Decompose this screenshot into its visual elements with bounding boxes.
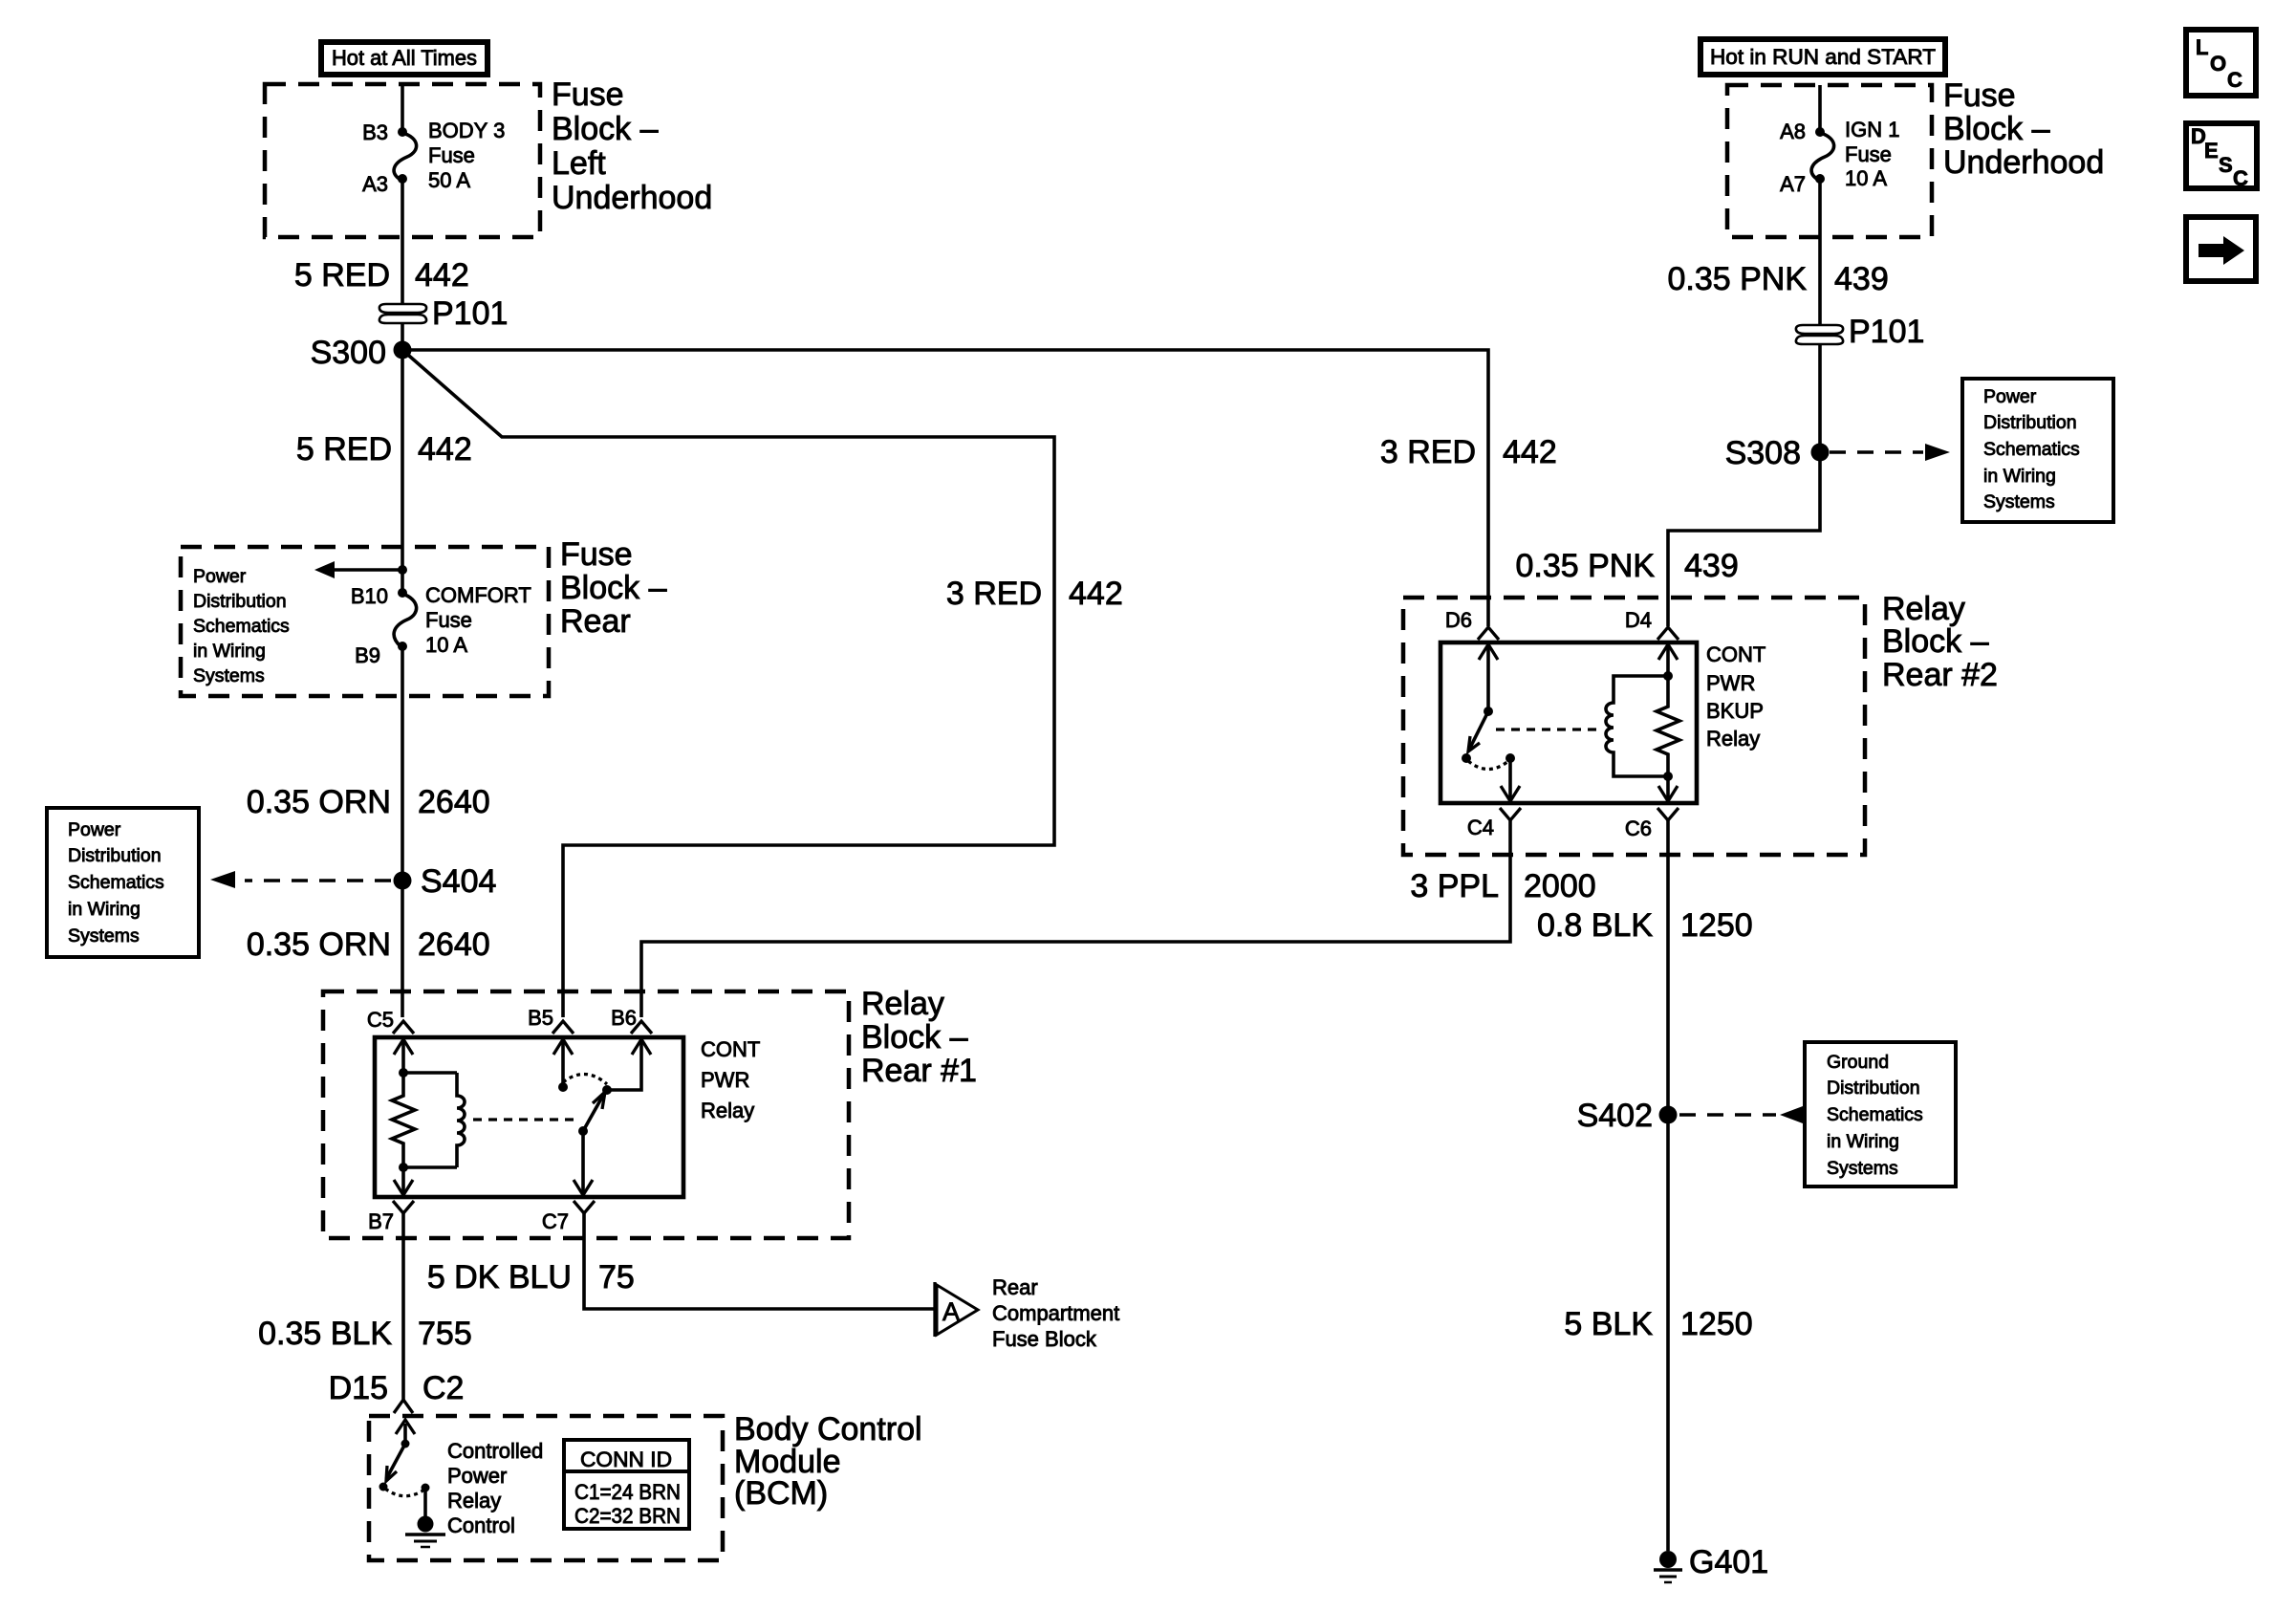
wire A7 to P101 right (1818, 179, 1822, 325)
node S404 (394, 872, 412, 890)
pin C5 (393, 1021, 414, 1034)
svg-text:442: 442 (1069, 576, 1123, 612)
svg-text:D6: D6 (1445, 608, 1472, 632)
pin C6 (1657, 808, 1679, 820)
relay U1 label (701, 1037, 760, 1122)
svg-text:Systems: Systems (68, 925, 140, 947)
svg-text:2640: 2640 (418, 926, 490, 963)
relay U1 B7 terminal arrow (394, 1167, 413, 1195)
svg-text:10 A: 10 A (425, 633, 467, 657)
svg-text:B7: B7 (368, 1209, 394, 1233)
svg-text:in Wiring: in Wiring (1827, 1131, 1899, 1152)
svg-text:Block –: Block – (560, 570, 667, 606)
DESC icon box (2186, 123, 2257, 190)
Relay Block - Rear #2 dashed box (1403, 598, 1865, 855)
svg-text:C2=32 BRN: C2=32 BRN (574, 1504, 681, 1528)
svg-text:Relay: Relay (1706, 727, 1760, 751)
svg-text:Block –: Block – (861, 1019, 968, 1056)
BCM driver arrow up (396, 1420, 415, 1444)
svg-text:Schematics: Schematics (1827, 1104, 1923, 1125)
svg-text:Distribution: Distribution (193, 591, 287, 612)
svg-text:C5: C5 (367, 1008, 394, 1032)
svg-text:D4: D4 (1625, 608, 1652, 632)
svg-text:Power: Power (447, 1464, 507, 1488)
svg-text:BODY 3: BODY 3 (428, 119, 505, 142)
svg-text:E: E (2204, 139, 2219, 163)
svg-text:Distribution: Distribution (1827, 1078, 1920, 1099)
relay U1 C7 terminal arrow (574, 1131, 593, 1195)
Fuse Block - Rear label (560, 536, 667, 640)
BCM contact stem (423, 1488, 427, 1516)
BCM function label (447, 1439, 543, 1537)
svg-text:Fuse: Fuse (1943, 77, 2016, 114)
relay U2 coil bottom node (1663, 772, 1673, 781)
relay U1 B6 terminal arrow and pivot (602, 1039, 651, 1095)
svg-text:Block –: Block – (1943, 111, 2050, 147)
svg-text:Relay: Relay (447, 1489, 501, 1513)
node A8 (1815, 127, 1825, 137)
svg-text:Block –: Block – (552, 111, 659, 147)
svg-text:Power: Power (193, 566, 247, 587)
wire label 0.8 BLK 1250 (1537, 907, 1753, 944)
node S308 (1811, 444, 1830, 462)
svg-text:C1=24 BRN: C1=24 BRN (574, 1480, 681, 1504)
wire A3 to P101 (401, 179, 404, 304)
relay U2 switch dashed arc (1468, 761, 1508, 770)
reference box Power Distribution Schematics right (1962, 379, 2113, 522)
svg-text:Relay: Relay (861, 986, 944, 1022)
svg-text:CONN ID: CONN ID (580, 1448, 672, 1471)
svg-text:S: S (2219, 153, 2233, 177)
relay U2 switch pivot node (1484, 707, 1493, 716)
relay U1 coil (457, 1073, 465, 1167)
fuse COMFORT value label (425, 583, 531, 657)
BCM pin chevron (394, 1400, 413, 1413)
Fuse Block - Underhood label (1943, 77, 2104, 181)
wire label 0.35 ORN 2640 upper (247, 784, 490, 820)
svg-text:5 RED: 5 RED (294, 257, 390, 294)
svg-text:10 A: 10 A (1845, 166, 1887, 190)
svg-text:75: 75 (598, 1259, 635, 1295)
wire label 3 PPL 2000 (1410, 868, 1595, 904)
svg-text:in Wiring: in Wiring (193, 641, 266, 662)
svg-text:in Wiring: in Wiring (68, 899, 141, 920)
CONN ID table (564, 1440, 689, 1529)
svg-text:Fuse: Fuse (1845, 142, 1892, 166)
svg-text:Hot at All Times: Hot at All Times (332, 46, 477, 70)
svg-text:L: L (2196, 35, 2208, 59)
dashed arrow S308 to power distribution box (1830, 444, 1950, 461)
svg-text:Fuse: Fuse (560, 536, 633, 573)
svg-text:Rear #1: Rear #1 (861, 1053, 977, 1089)
svg-text:S402: S402 (1577, 1098, 1653, 1134)
svg-text:Power: Power (68, 819, 121, 840)
pin B7 (393, 1201, 414, 1213)
off-page connector A (935, 1282, 978, 1337)
dashed arrow S404 to power distribution box (210, 871, 391, 888)
relay U1 B5 terminal arrow and contact (553, 1039, 573, 1092)
wire B7 to BCM (401, 1213, 405, 1400)
Hot in RUN and START box (1700, 39, 1945, 75)
relay U1 C5 terminal arrow (394, 1039, 413, 1073)
BCM ground (405, 1516, 445, 1548)
relay U2 coil top node (1663, 671, 1673, 681)
svg-text:Hot in RUN and START: Hot in RUN and START (1710, 45, 1936, 69)
wire label 5 RED 442 lower (296, 431, 472, 468)
relay U2 D6 terminal arrow (1479, 644, 1498, 711)
svg-text:Fuse Block: Fuse Block (992, 1327, 1097, 1351)
svg-text:S300: S300 (311, 335, 386, 371)
svg-text:Ground: Ground (1827, 1052, 1889, 1073)
relay U1 coil top link (403, 1071, 457, 1075)
junction node for branch arrow (398, 565, 407, 575)
Relay Block - Rear #1 dashed box (323, 991, 849, 1238)
svg-text:1250: 1250 (1680, 907, 1753, 944)
svg-text:50 A: 50 A (428, 168, 470, 192)
BCM driver contact node (379, 1483, 388, 1491)
node S300 (394, 341, 412, 359)
svg-text:Control: Control (447, 1513, 515, 1537)
wire label 3 RED 442 right (1380, 434, 1557, 470)
forward arrow icon box (2186, 217, 2256, 281)
svg-text:439: 439 (1684, 548, 1739, 584)
svg-text:Fuse: Fuse (428, 143, 475, 167)
svg-text:3 PPL: 3 PPL (1410, 868, 1499, 904)
svg-text:COMFORT: COMFORT (425, 583, 531, 607)
svg-text:P101: P101 (1849, 314, 1924, 350)
svg-text:Underhood: Underhood (1943, 144, 2104, 181)
svg-text:B6: B6 (611, 1006, 637, 1030)
relay U2 resistor (1657, 676, 1679, 776)
svg-text:C2: C2 (422, 1370, 464, 1406)
svg-text:Relay: Relay (701, 1099, 754, 1122)
svg-text:3 RED: 3 RED (946, 576, 1042, 612)
fuse BODY 3 value label (428, 119, 505, 192)
wire label 0.35 PNK 439 lower (1515, 548, 1738, 584)
fuse COMFORT element (394, 594, 417, 646)
svg-text:Rear #2: Rear #2 (1882, 657, 1998, 693)
wire label 0.35 ORN 2640 lower (247, 926, 490, 963)
svg-text:Left: Left (552, 145, 606, 182)
svg-text:Controlled: Controlled (447, 1439, 543, 1463)
reference text Power Distribution Schematics in Wiring Systems (in fuse block rear) (193, 566, 290, 686)
pin D4 (1657, 627, 1679, 640)
svg-text:D15: D15 (329, 1370, 388, 1406)
relay U1 common node (578, 1126, 588, 1136)
fuse IGN 1 element (1811, 133, 1834, 180)
pin D6 (1478, 627, 1499, 640)
svg-text:P101: P101 (432, 295, 508, 332)
BCM second contact node (422, 1484, 430, 1492)
Body Control Module label (734, 1411, 922, 1512)
Body Control Module dashed box (369, 1416, 723, 1560)
node B3 (398, 127, 407, 137)
svg-text:S404: S404 (421, 863, 496, 900)
reference box Ground Distribution Schematics (1805, 1042, 1956, 1186)
wire B9 down to relay block 1 (401, 648, 404, 1017)
wire into fuse BODY 3 (401, 84, 404, 132)
svg-text:C: C (2233, 166, 2248, 190)
fuse BODY 3 element (394, 133, 417, 180)
relay U2 label (1706, 642, 1765, 751)
svg-text:Systems: Systems (193, 665, 265, 686)
svg-text:2640: 2640 (418, 784, 490, 820)
node S402 (1659, 1106, 1678, 1124)
wire C4 to B6 (3 PPL 2000) (641, 820, 1510, 1017)
ground G401 (1654, 1551, 1682, 1582)
svg-text:B10: B10 (351, 584, 388, 608)
wire label 3 RED 442 middle (946, 576, 1123, 612)
svg-text:in Wiring: in Wiring (1983, 466, 2056, 487)
relay U2 CONT PWR BKUP Relay outline (1440, 642, 1697, 803)
off-page connector A label (992, 1275, 1119, 1351)
svg-text:Block –: Block – (1882, 623, 1989, 660)
svg-text:Schematics: Schematics (1983, 439, 2080, 460)
relay U1 switch dashed arc (563, 1074, 607, 1084)
node B9 (398, 642, 407, 651)
svg-text:Power: Power (1983, 386, 2037, 407)
relay U1 switch armature (583, 1092, 605, 1131)
svg-text:IGN 1: IGN 1 (1845, 118, 1899, 142)
reference box Power Distribution Schematics left (47, 808, 199, 957)
svg-text:3 RED: 3 RED (1380, 434, 1476, 470)
svg-text:O: O (2210, 52, 2226, 76)
node B10 (398, 588, 407, 598)
wire label 5 DK BLU 75 (427, 1259, 635, 1295)
svg-text:B9: B9 (355, 643, 380, 667)
svg-text:439: 439 (1834, 261, 1889, 297)
wire C7 to A triangle (584, 1213, 934, 1309)
relay U2 switch armature (1468, 711, 1488, 751)
svg-text:C4: C4 (1467, 816, 1494, 839)
svg-text:CONT: CONT (1706, 642, 1765, 666)
svg-text:0.8 BLK: 0.8 BLK (1537, 907, 1653, 944)
Relay Block - Rear #2 label (1882, 591, 1998, 693)
wire P101 to S300 (401, 323, 404, 350)
Relay Block - Rear #1 label (861, 986, 977, 1089)
svg-text:A: A (942, 1297, 960, 1326)
svg-text:B5: B5 (528, 1006, 553, 1030)
svg-text:C7: C7 (542, 1209, 569, 1233)
svg-text:Distribution: Distribution (1983, 412, 2077, 433)
relay U2 D4 terminal arrow (1658, 644, 1678, 676)
svg-text:5 DK BLU: 5 DK BLU (427, 1259, 572, 1295)
svg-text:5 BLK: 5 BLK (1564, 1306, 1653, 1342)
svg-text:0.35 ORN: 0.35 ORN (247, 926, 391, 963)
svg-text:Compartment: Compartment (992, 1301, 1119, 1325)
svg-text:Distribution: Distribution (68, 845, 162, 866)
branch arrow to power distribution (314, 561, 402, 578)
node A7 (1815, 174, 1825, 184)
svg-text:S308: S308 (1725, 435, 1801, 471)
wire label 0.35 PNK 439 upper (1667, 261, 1888, 297)
svg-text:G401: G401 (1689, 1544, 1768, 1580)
svg-text:0.35 PNK: 0.35 PNK (1667, 261, 1807, 297)
relay U2 switch contact node (1462, 753, 1471, 763)
relay U1 coil bottom node (399, 1163, 408, 1172)
wire P101 to S308 to D4 (1668, 344, 1820, 626)
svg-text:(BCM): (BCM) (734, 1475, 828, 1512)
pin C7 (574, 1201, 595, 1213)
svg-text:C: C (2227, 68, 2242, 92)
relay U1 coil top node (399, 1068, 408, 1078)
svg-text:B3: B3 (362, 120, 388, 144)
svg-text:CONT: CONT (701, 1037, 760, 1061)
dashed arrow S402 to ground distribution box (1679, 1106, 1803, 1123)
wire C6 to G401 (1666, 820, 1670, 1551)
svg-text:442: 442 (1503, 434, 1557, 470)
Hot at All Times box (321, 42, 487, 75)
svg-text:Schematics: Schematics (193, 616, 290, 637)
Fuse Block - Left Underhood dashed box (265, 84, 540, 237)
wire S300 to B5 (3 RED 442) (402, 350, 1054, 1017)
svg-text:5 RED: 5 RED (296, 431, 392, 468)
wire into fuse IGN 1 (1818, 85, 1822, 132)
svg-text:Fuse: Fuse (552, 76, 624, 113)
svg-text:PWR: PWR (701, 1068, 749, 1092)
pin C4 (1500, 808, 1521, 820)
svg-text:Fuse: Fuse (425, 608, 472, 632)
svg-text:Underhood: Underhood (552, 180, 712, 216)
relay U1 resistor (392, 1073, 415, 1167)
svg-text:Rear: Rear (992, 1275, 1038, 1299)
fuse IGN 1 value label (1845, 118, 1899, 190)
svg-text:Rear: Rear (560, 603, 631, 640)
relay U1 CONT PWR Relay outline (375, 1037, 683, 1197)
svg-text:Relay: Relay (1882, 591, 1965, 627)
svg-text:A3: A3 (362, 172, 388, 196)
connector P101 left (379, 304, 426, 323)
svg-text:0.35 ORN: 0.35 ORN (247, 784, 391, 820)
svg-text:A7: A7 (1780, 172, 1806, 196)
svg-text:Systems: Systems (1827, 1158, 1898, 1179)
Fuse Block - Underhood dashed box (1727, 85, 1932, 237)
wire label 5 RED 442 (294, 257, 469, 294)
pin B6 (631, 1021, 652, 1034)
BCM driver dashed arc (385, 1489, 424, 1496)
svg-text:0.35 BLK: 0.35 BLK (258, 1316, 392, 1352)
svg-text:Schematics: Schematics (68, 872, 164, 893)
pin B5 (552, 1021, 574, 1034)
BCM driver pivot node (401, 1440, 410, 1448)
svg-text:C6: C6 (1625, 816, 1652, 840)
svg-text:Systems: Systems (1983, 491, 2055, 512)
LOC icon box (2186, 30, 2256, 96)
svg-text:1250: 1250 (1680, 1306, 1753, 1342)
svg-text:755: 755 (418, 1316, 472, 1352)
relay U2 second contact node (1505, 753, 1515, 763)
wire S300 down to fuse block rear (401, 350, 404, 596)
svg-text:A8: A8 (1780, 120, 1806, 143)
BCM driver armature (386, 1444, 405, 1481)
svg-text:442: 442 (418, 431, 472, 468)
wire label 5 BLK 1250 (1564, 1306, 1752, 1342)
node A3 (398, 174, 407, 184)
relay U1 coil bottom link (403, 1165, 457, 1169)
wire S300 to D6 (3 RED 442) (402, 350, 1488, 626)
wire label 0.35 BLK 755 (258, 1316, 472, 1352)
Fuse Block - Rear dashed box (181, 547, 549, 696)
relay U2 C4 terminal arrow (1501, 758, 1520, 801)
relay U2 C6 terminal arrow (1658, 776, 1678, 801)
relay U1 linkage dashed (473, 1118, 577, 1121)
svg-text:2000: 2000 (1524, 868, 1596, 904)
connector P101 right (1796, 325, 1843, 344)
svg-text:PWR: PWR (1706, 671, 1755, 695)
relay U2 linkage dashed (1496, 728, 1602, 730)
svg-text:Body Control: Body Control (734, 1411, 922, 1448)
svg-text:0.35 PNK: 0.35 PNK (1515, 548, 1655, 584)
Fuse Block - Left Underhood label (552, 76, 712, 216)
svg-text:442: 442 (415, 257, 469, 294)
svg-text:BKUP: BKUP (1706, 699, 1764, 723)
relay U2 coil (1606, 676, 1668, 776)
